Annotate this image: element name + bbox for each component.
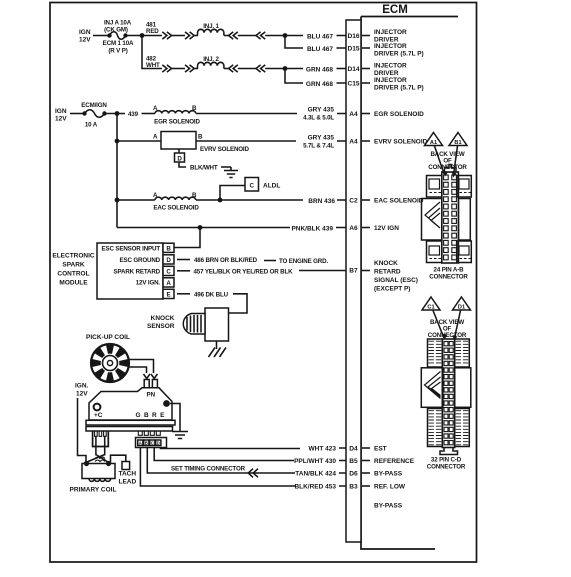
svg-text:D: D	[157, 441, 160, 446]
svg-text:ALDL: ALDL	[263, 182, 280, 189]
svg-text:ECM 1 10A: ECM 1 10A	[103, 40, 134, 47]
svg-text:BLK/WHT: BLK/WHT	[190, 165, 218, 172]
pin chevrons above PN	[144, 374, 158, 379]
module terminal dot	[163, 400, 170, 407]
svg-text:B5: B5	[349, 458, 358, 465]
leader B1 to pin	[454, 146, 458, 175]
svg-text:(R V P): (R V P)	[108, 48, 127, 55]
svg-text:12V IGN.: 12V IGN.	[136, 280, 161, 287]
tick C15	[362, 82, 370, 84]
svg-text:5.7L & 7.4L: 5.7L & 7.4L	[303, 143, 334, 150]
ALDL connector C	[245, 178, 259, 192]
leader A1 to pin	[435, 146, 445, 175]
ESC pin E	[163, 289, 174, 298]
wire to fuse INJ A	[93, 35, 109, 37]
main feed vertical	[116, 114, 118, 228]
tick B3	[362, 485, 370, 487]
wire branch to C15	[285, 69, 346, 84]
svg-text:D15: D15	[347, 46, 359, 53]
svg-text:BLU 467: BLU 467	[307, 34, 333, 41]
wire D to EST (WHT 423)	[161, 448, 347, 449]
svg-text:32 PIN C-D: 32 PIN C-D	[431, 457, 462, 464]
svg-text:EVRV SOLENOID: EVRV SOLENOID	[200, 146, 250, 153]
svg-text:DRIVER: DRIVER	[374, 70, 399, 77]
ABCD pins above	[138, 431, 160, 436]
svg-text:B: B	[166, 246, 171, 253]
triangle D1	[453, 297, 471, 310]
node junction inj feed	[140, 33, 145, 38]
svg-text:12V: 12V	[55, 116, 67, 123]
set timing connector chevrons	[248, 469, 258, 478]
svg-text:TAN/BLK 424: TAN/BLK 424	[295, 471, 336, 478]
svg-text:12V: 12V	[76, 391, 88, 398]
svg-text:SPARK: SPARK	[62, 262, 85, 269]
svg-text:D: D	[177, 155, 182, 162]
svg-text:BLU 467: BLU 467	[307, 46, 333, 53]
wire ESC B to PNK node	[174, 228, 200, 248]
EVRV solenoid box	[161, 132, 196, 150]
svg-text:WHT 423: WHT 423	[309, 446, 337, 453]
svg-text:457 YEL/BLK OR YEL/RED OR BLK: 457 YEL/BLK OR YEL/RED OR BLK	[194, 268, 294, 275]
ABCD connector shell	[136, 438, 167, 448]
svg-text:C2: C2	[349, 198, 358, 205]
svg-text:SET TIMING CONNECTOR: SET TIMING CONNECTOR	[171, 466, 246, 473]
svg-text:CONNECTOR: CONNECTOR	[429, 274, 468, 281]
svg-text:DRIVER (5.7L P): DRIVER (5.7L P)	[374, 85, 424, 92]
primary coil box	[82, 464, 115, 479]
svg-text:C15: C15	[347, 81, 359, 88]
svg-text:PICK-UP COIL: PICK-UP COIL	[86, 334, 130, 341]
svg-text:+C: +C	[94, 412, 103, 419]
svg-text:EAC SOLENOID: EAC SOLENOID	[153, 205, 199, 212]
svg-text:ECM/IGN: ECM/IGN	[81, 102, 107, 109]
svg-text:B: B	[145, 441, 148, 446]
svg-text:E: E	[167, 292, 171, 299]
svg-text:INJECTOR: INJECTOR	[374, 29, 407, 36]
svg-text:C1: C1	[427, 305, 434, 311]
svg-text:REFERENCE: REFERENCE	[374, 458, 415, 465]
pin D box	[156, 440, 161, 446]
svg-text:INJECTOR: INJECTOR	[374, 63, 407, 70]
svg-text:GRN 468: GRN 468	[306, 67, 333, 74]
svg-text:4.3L & 5.0L: 4.3L & 5.0L	[303, 115, 334, 122]
24 pin A-B connector drawing	[422, 165, 472, 264]
svg-text:KNOCK: KNOCK	[374, 260, 398, 267]
pin C box	[150, 440, 155, 446]
svg-text:PN: PN	[146, 392, 155, 399]
node split GRN	[283, 66, 288, 71]
pin B box	[144, 440, 149, 446]
node EAC tap	[115, 198, 120, 203]
svg-text:A4: A4	[349, 111, 358, 118]
splice marks on crossed wires	[95, 457, 105, 462]
svg-text:C: C	[250, 182, 255, 189]
svg-text:WHT: WHT	[146, 62, 160, 69]
node main feed junction	[115, 111, 120, 116]
svg-text:IGN: IGN	[79, 29, 91, 36]
pin A box	[138, 440, 143, 446]
wire to ALDL	[220, 186, 245, 201]
svg-text:EVRV SOLENOID: EVRV SOLENOID	[374, 139, 428, 146]
leader C1 to pin	[433, 311, 444, 339]
wire dot to ground	[170, 404, 180, 432]
svg-text:D16: D16	[347, 33, 359, 40]
tick A4a	[362, 113, 370, 115]
svg-text:ELECTRONIC: ELECTRONIC	[52, 253, 95, 260]
left connector shell	[93, 431, 109, 447]
svg-text:CONNECTOR: CONNECTOR	[427, 464, 466, 471]
connector chevrons row2 left	[224, 68, 229, 70]
wire ESC C 457 to B7	[177, 270, 190, 272]
ignition module body	[89, 388, 172, 420]
tick A6	[362, 227, 370, 229]
svg-text:B1: B1	[454, 140, 461, 146]
svg-text:BLK/RED 453: BLK/RED 453	[294, 484, 336, 491]
knock sensor body	[205, 308, 229, 341]
svg-text:DRIVER (5.7L P): DRIVER (5.7L P)	[374, 51, 424, 58]
coil terminal dots	[84, 461, 89, 466]
svg-text:MODULE: MODULE	[59, 280, 88, 287]
svg-text:D6: D6	[349, 471, 358, 478]
svg-text:A: A	[153, 134, 158, 141]
node ESC tap	[198, 225, 203, 230]
ESC pin B	[163, 243, 174, 252]
svg-text:C: C	[151, 441, 154, 446]
tick B7	[362, 270, 370, 272]
svg-text:ESC GROUND: ESC GROUND	[120, 257, 161, 264]
ESC pin C	[163, 266, 174, 275]
fuse INJ A 10A	[107, 33, 111, 37]
svg-text:EAC SOLENOID: EAC SOLENOID	[374, 198, 424, 205]
tick D4	[362, 447, 370, 449]
svg-text:(EXCEPT P): (EXCEPT P)	[374, 286, 410, 293]
svg-text:CONNECTOR: CONNECTOR	[428, 332, 467, 339]
tick A4b	[362, 140, 370, 142]
svg-text:A6: A6	[349, 225, 358, 232]
wire IGN 12V to primary coil	[78, 398, 87, 463]
svg-text:A1: A1	[430, 140, 437, 146]
svg-text:IGN.: IGN.	[75, 383, 89, 390]
svg-text:GBRE: GBRE	[136, 412, 168, 419]
svg-text:ESC SENSOR INPUT: ESC SENSOR INPUT	[102, 246, 161, 253]
svg-text:SIGNAL (ESC): SIGNAL (ESC)	[374, 277, 418, 284]
triangle B1	[449, 133, 467, 146]
left connector pins	[95, 431, 107, 436]
svg-text:SENSOR: SENSOR	[147, 323, 175, 330]
svg-text:GRY 435: GRY 435	[308, 107, 335, 114]
svg-text:10 A: 10 A	[85, 122, 98, 129]
svg-text:REF. LOW: REF. LOW	[374, 484, 406, 491]
ECM pin column box	[346, 20, 361, 542]
32 pin C-D connector drawing	[421, 339, 471, 455]
svg-text:C: C	[166, 269, 171, 276]
connector chevrons row1 left	[224, 35, 229, 37]
tach lead square	[122, 462, 130, 470]
triangle A1	[425, 133, 443, 146]
wires to primary coil (crossed)	[96, 437, 105, 456]
svg-text:D1: D1	[458, 305, 465, 311]
wire to fuse ECM/IGN	[70, 113, 84, 115]
svg-text:CONTROL: CONTROL	[57, 271, 89, 278]
svg-text:439: 439	[128, 111, 139, 118]
svg-text:GRY 435: GRY 435	[308, 135, 335, 142]
knock sensor capsule	[183, 314, 205, 335]
svg-text:PPL/WHT 430: PPL/WHT 430	[294, 458, 336, 465]
wire EVRV to A4	[196, 140, 346, 142]
wire knock sensor to ground	[216, 341, 218, 349]
svg-text:BY-PASS: BY-PASS	[374, 503, 403, 510]
primary coil winding	[89, 479, 111, 482]
wire ESC E 496 DK BLU	[177, 293, 190, 295]
tach lead tap wire	[111, 455, 126, 462]
chassis ground (knock)	[209, 348, 227, 358]
PN pins	[144, 380, 149, 389]
wire branch to D15	[285, 36, 346, 49]
svg-text:D4: D4	[349, 446, 358, 453]
svg-text:RED: RED	[146, 28, 159, 35]
ESC pin D	[163, 255, 174, 264]
wire PNK/BLK 439 to A6	[117, 227, 346, 229]
svg-text:INJECTOR: INJECTOR	[374, 43, 407, 50]
svg-text:INJ. 1: INJ. 1	[203, 23, 219, 30]
svg-text:486 BRN OR BLK/RED: 486 BRN OR BLK/RED	[194, 257, 258, 264]
svg-text:A: A	[166, 280, 171, 287]
ESC module box U2	[97, 243, 163, 299]
svg-text:A4: A4	[349, 139, 358, 146]
svg-text:INJECTOR: INJECTOR	[374, 77, 407, 84]
svg-text:EST: EST	[374, 446, 387, 453]
border frame	[50, 3, 477, 563]
svg-text:496 DK BLU: 496 DK BLU	[194, 292, 229, 299]
svg-text:IGN: IGN	[55, 108, 67, 115]
pin D of EVRV	[178, 149, 180, 153]
tick D16	[362, 35, 370, 37]
svg-text:BRN 436: BRN 436	[308, 198, 335, 205]
svg-text:12V IGN: 12V IGN	[374, 225, 399, 232]
tick D6	[362, 472, 370, 474]
module mount hole	[94, 404, 101, 411]
tick B5	[362, 460, 370, 462]
wire to EVRV box	[117, 140, 161, 142]
svg-text:24 PIN A-B: 24 PIN A-B	[434, 267, 465, 274]
svg-text:(CK GM): (CK GM)	[104, 27, 128, 34]
module base plates	[86, 420, 175, 425]
wire EAC to C2	[196, 199, 346, 201]
wire A to REF LOW (BLK/RED 453)	[140, 448, 346, 487]
svg-text:A: A	[139, 441, 142, 446]
svg-text:INJ A 10A: INJ A 10A	[104, 20, 132, 27]
svg-text:B: B	[198, 134, 203, 141]
wires pick-up coil to PN pins	[129, 360, 154, 374]
node EVRV tap	[115, 139, 120, 144]
svg-text:RETARD: RETARD	[374, 269, 401, 276]
node split BLU	[283, 33, 288, 38]
svg-text:PNK/BLK 439: PNK/BLK 439	[291, 226, 333, 233]
connector chevrons row1 right	[162, 32, 171, 39]
wire BLK/WHT to ground	[179, 162, 186, 167]
svg-text:SPARK RETARD: SPARK RETARD	[114, 268, 161, 275]
wire B to BY-PASS (TAN/BLK 424) with set timing connector	[147, 448, 346, 474]
wire to EGR coil	[142, 113, 156, 115]
triangle C1	[422, 297, 440, 310]
svg-text:B7: B7	[349, 268, 358, 275]
wire fuse to junction	[126, 35, 163, 37]
svg-text:LEAD: LEAD	[119, 479, 137, 486]
svg-text:EGR SOLENOID: EGR SOLENOID	[374, 111, 424, 118]
wire C to REFERENCE (PPL/WHT 430)	[154, 448, 346, 461]
ECM box outline	[361, 17, 458, 550]
svg-text:PRIMARY COIL: PRIMARY COIL	[70, 487, 117, 494]
tick D15	[362, 47, 370, 49]
tick D14	[362, 68, 370, 70]
svg-text:TO ENGINE GRD.: TO ENGINE GRD.	[279, 258, 328, 265]
svg-text:B3: B3	[349, 484, 358, 491]
svg-text:EGR SOLENOID: EGR SOLENOID	[154, 119, 200, 126]
svg-text:TACH: TACH	[119, 471, 137, 478]
svg-text:KNOCK: KNOCK	[151, 315, 175, 322]
wire EGR to A4	[196, 113, 346, 115]
wire ESC D 486 to engine ground	[177, 259, 190, 261]
wire fuse to 439 label	[105, 113, 126, 115]
svg-text:D14: D14	[347, 66, 359, 73]
svg-text:INJ. 2: INJ. 2	[203, 56, 219, 63]
connector chevrons row2 right	[162, 65, 171, 72]
node ALDL tap	[218, 198, 223, 203]
svg-text:GRN 468: GRN 468	[306, 81, 333, 88]
ground (EVRV BLK/WHT)	[224, 167, 238, 178]
leader D1 to pin	[455, 311, 461, 339]
svg-text:ECM: ECM	[382, 4, 408, 16]
svg-text:BY-PASS: BY-PASS	[374, 471, 403, 478]
wire 482 WHT drop	[142, 36, 162, 69]
pick-up coil symbol	[91, 344, 129, 382]
tick C2	[362, 199, 370, 201]
ESC pin A	[163, 278, 174, 287]
ground (module)	[172, 432, 188, 439]
svg-text:12V: 12V	[79, 37, 91, 44]
svg-text:D: D	[166, 257, 171, 264]
